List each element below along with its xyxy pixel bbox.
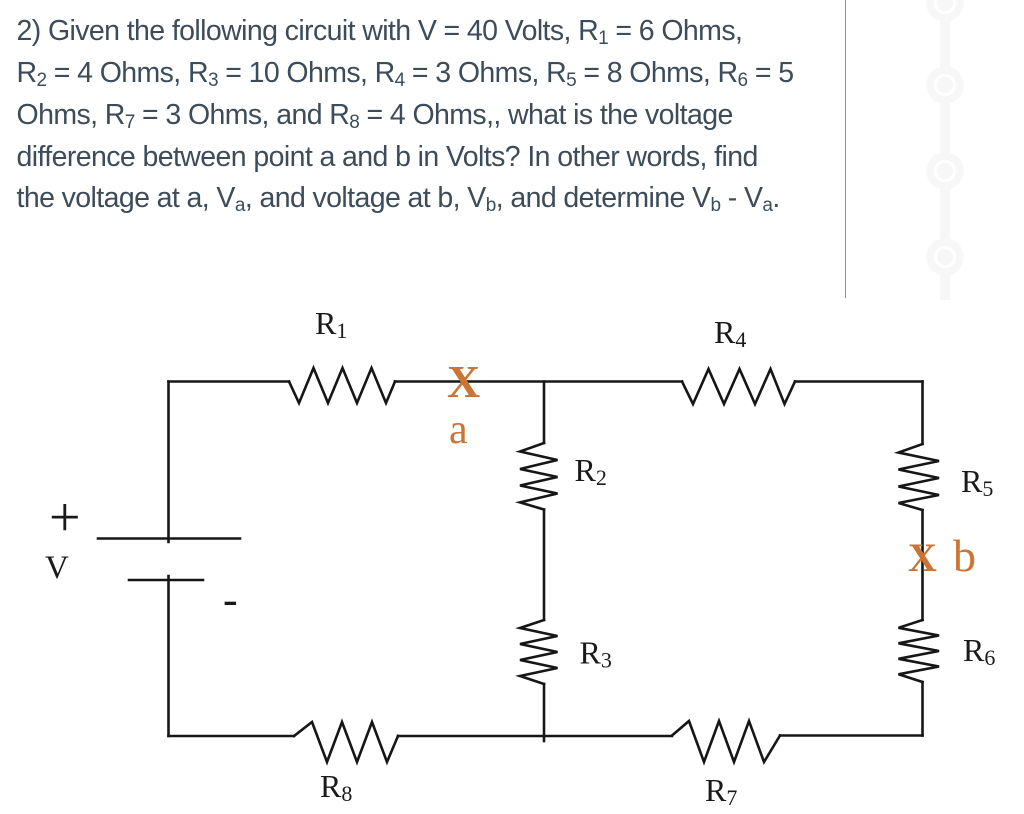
label R4 [714, 314, 746, 352]
wire left rail lower [167, 576, 170, 736]
svg-text:a: a [449, 407, 468, 453]
node b label [953, 530, 976, 581]
resistor R4 [682, 369, 795, 404]
label battery V [45, 550, 69, 586]
node a label [449, 407, 468, 453]
svg-text:b: b [953, 530, 976, 581]
resistor R7 [672, 721, 780, 762]
wire middle branch mid [543, 510, 546, 621]
svg-text:R6: R6 [963, 632, 995, 670]
label R7 [705, 772, 737, 810]
resistor R1 [289, 368, 395, 403]
svg-text:R8: R8 [320, 768, 352, 806]
wire bottom right [780, 734, 923, 737]
label R1 [315, 305, 347, 343]
svg-text:R5: R5 [961, 463, 993, 501]
question text [17, 11, 1017, 220]
label R6 [963, 632, 995, 670]
svg-text:R3: R3 [580, 635, 612, 673]
wire middle branch upper [543, 382, 546, 444]
svg-text:V: V [45, 550, 69, 586]
label R3 [580, 635, 612, 673]
svg-text:R4: R4 [714, 314, 746, 352]
divider line [845, 0, 846, 298]
label battery minus [223, 575, 238, 624]
svg-text:R2: R2 [575, 452, 607, 490]
node b X mark [908, 535, 937, 580]
svg-text:X: X [447, 356, 480, 407]
svg-text:+: + [49, 487, 81, 549]
wire right rail upper [921, 382, 924, 445]
resistor R2 [520, 443, 558, 510]
svg-text:R1: R1 [315, 305, 347, 343]
svg-text:X: X [908, 535, 937, 580]
svg-text:-: - [223, 575, 238, 624]
resistor R8 [294, 722, 398, 762]
resistor R6 [899, 620, 940, 682]
wire bottom middle [398, 735, 672, 738]
svg-text:R7: R7 [705, 772, 737, 810]
battery V bottom plate [129, 579, 203, 582]
wire middle branch lower [543, 684, 546, 741]
wire top middle [395, 380, 682, 383]
label R8 [320, 768, 352, 806]
resistor R3 [520, 620, 558, 684]
battery V top plate [98, 537, 240, 540]
resistor R5 [899, 444, 940, 510]
wire top left [169, 380, 290, 383]
wire bottom left [169, 735, 295, 738]
wire right rail lower [921, 682, 924, 736]
node a X mark [447, 356, 480, 407]
wire left rail upper [167, 382, 170, 543]
label R2 [575, 452, 607, 490]
wire top right [795, 380, 923, 383]
label battery plus [49, 487, 81, 549]
wire right rail mid [921, 510, 924, 620]
label R5 [961, 463, 993, 501]
